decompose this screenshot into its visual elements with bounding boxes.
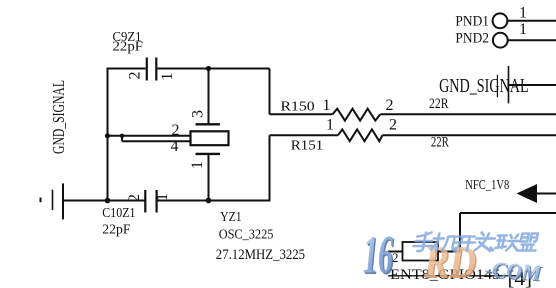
wire box right pin <box>438 251 460 253</box>
svg-text:1: 1 <box>519 5 527 22</box>
wire crystal pin1 vertical <box>208 155 210 201</box>
wire PND2 <box>508 39 556 41</box>
wire bottom-right vertical <box>459 213 461 252</box>
watermark chinese 手机开发联盟 <box>412 233 539 252</box>
resistor R151 zigzag <box>338 129 383 141</box>
svg-text:GND_SIGNAL: GND_SIGNAL <box>439 75 528 97</box>
wire box left pin <box>388 251 403 253</box>
wire vertical crossing GND_SIGNAL text left <box>496 75 498 98</box>
svg-text:2: 2 <box>127 72 144 80</box>
svg-text:4: 4 <box>171 138 179 155</box>
wire vertical crossing GND_SIGNAL text right <box>508 66 510 103</box>
svg-text:YZ1: YZ1 <box>220 209 242 224</box>
ground GND_SIGNAL symbol <box>41 183 64 219</box>
wire crystal pin4 <box>122 140 191 142</box>
char meng <box>518 234 539 251</box>
junction node bottom wire / ground <box>105 198 111 204</box>
wire crystal pin2 <box>108 135 191 137</box>
wire bottom-right horizontal <box>460 212 556 214</box>
svg-text:-COM: -COM <box>484 256 543 285</box>
wire R150 left <box>270 113 333 115</box>
wire R151 right <box>382 134 556 136</box>
svg-text:1: 1 <box>323 97 331 114</box>
svg-text:22R: 22R <box>431 134 449 150</box>
svg-text:27.12MHZ_3225: 27.12MHZ_3225 <box>216 247 305 263</box>
component box bottom (obscured) <box>403 242 439 261</box>
connector pin PND2 circle <box>493 33 508 48</box>
svg-text:22pF: 22pF <box>113 38 144 53</box>
junction node bottom wire / pin1 <box>206 198 212 204</box>
wire crystal pin3 vertical <box>208 69 210 124</box>
char kai <box>453 237 476 252</box>
wire left vertical <box>107 68 109 201</box>
wire crystal pin4 stub <box>121 136 123 142</box>
wire R151 left <box>270 134 338 136</box>
wire PND1 <box>508 20 556 22</box>
svg-text:1: 1 <box>189 161 206 169</box>
svg-text:1: 1 <box>159 73 176 81</box>
char lian <box>495 235 521 251</box>
wire right vertical lower <box>269 135 271 200</box>
svg-text:2: 2 <box>172 122 180 139</box>
svg-text:1: 1 <box>154 193 171 201</box>
capacitor C10Z1 <box>145 190 156 213</box>
connector pin PND1 circle <box>493 13 508 28</box>
svg-text:22pF: 22pF <box>102 221 130 236</box>
svg-text:2: 2 <box>126 194 143 202</box>
svg-text:1: 1 <box>519 21 527 38</box>
svg-text:16: 16 <box>363 225 393 284</box>
crystal YZ1 body <box>191 124 229 154</box>
wire top left segment <box>108 68 146 70</box>
svg-text:NFC_1V8: NFC_1V8 <box>465 178 509 193</box>
wire top right segment <box>158 68 270 70</box>
char ji <box>431 234 458 252</box>
char shou <box>412 233 435 252</box>
char fa <box>474 233 497 252</box>
net port NFC_1V8 triangle <box>517 184 538 203</box>
svg-text:GND_SIGNAL: GND_SIGNAL <box>49 80 68 154</box>
wire NFC_1V8 stub <box>536 193 556 195</box>
wire ENT8_GPIO145 net <box>388 275 517 277</box>
junction node pin4 stub <box>120 134 124 138</box>
svg-text:22R: 22R <box>429 96 449 112</box>
wire R150 right <box>380 113 556 115</box>
wire right vertical upper <box>269 69 271 115</box>
junction node at left vertical / pin2 <box>105 133 110 138</box>
svg-text:2: 2 <box>389 116 397 133</box>
capacitor C9Z1 <box>147 58 157 81</box>
resistor R150 zigzag <box>333 109 381 121</box>
wire bottom left segment <box>63 200 145 202</box>
wire GND_SIGNAL stub <box>509 84 556 86</box>
svg-text:3: 3 <box>190 110 207 118</box>
svg-text:OSC_3225: OSC_3225 <box>219 228 274 243</box>
wire bottom right segment <box>158 200 271 202</box>
svg-text:PND2: PND2 <box>455 30 489 46</box>
svg-text:R150: R150 <box>281 98 315 113</box>
watermark 16RD.COM and chinese text <box>363 225 544 288</box>
svg-text:1: 1 <box>326 116 334 133</box>
junction node top wire / pin3 <box>206 66 211 71</box>
svg-text:2: 2 <box>386 97 394 114</box>
svg-text:R151: R151 <box>291 138 324 153</box>
svg-text:PND1: PND1 <box>455 14 489 30</box>
svg-text:C10Z1: C10Z1 <box>102 205 135 220</box>
